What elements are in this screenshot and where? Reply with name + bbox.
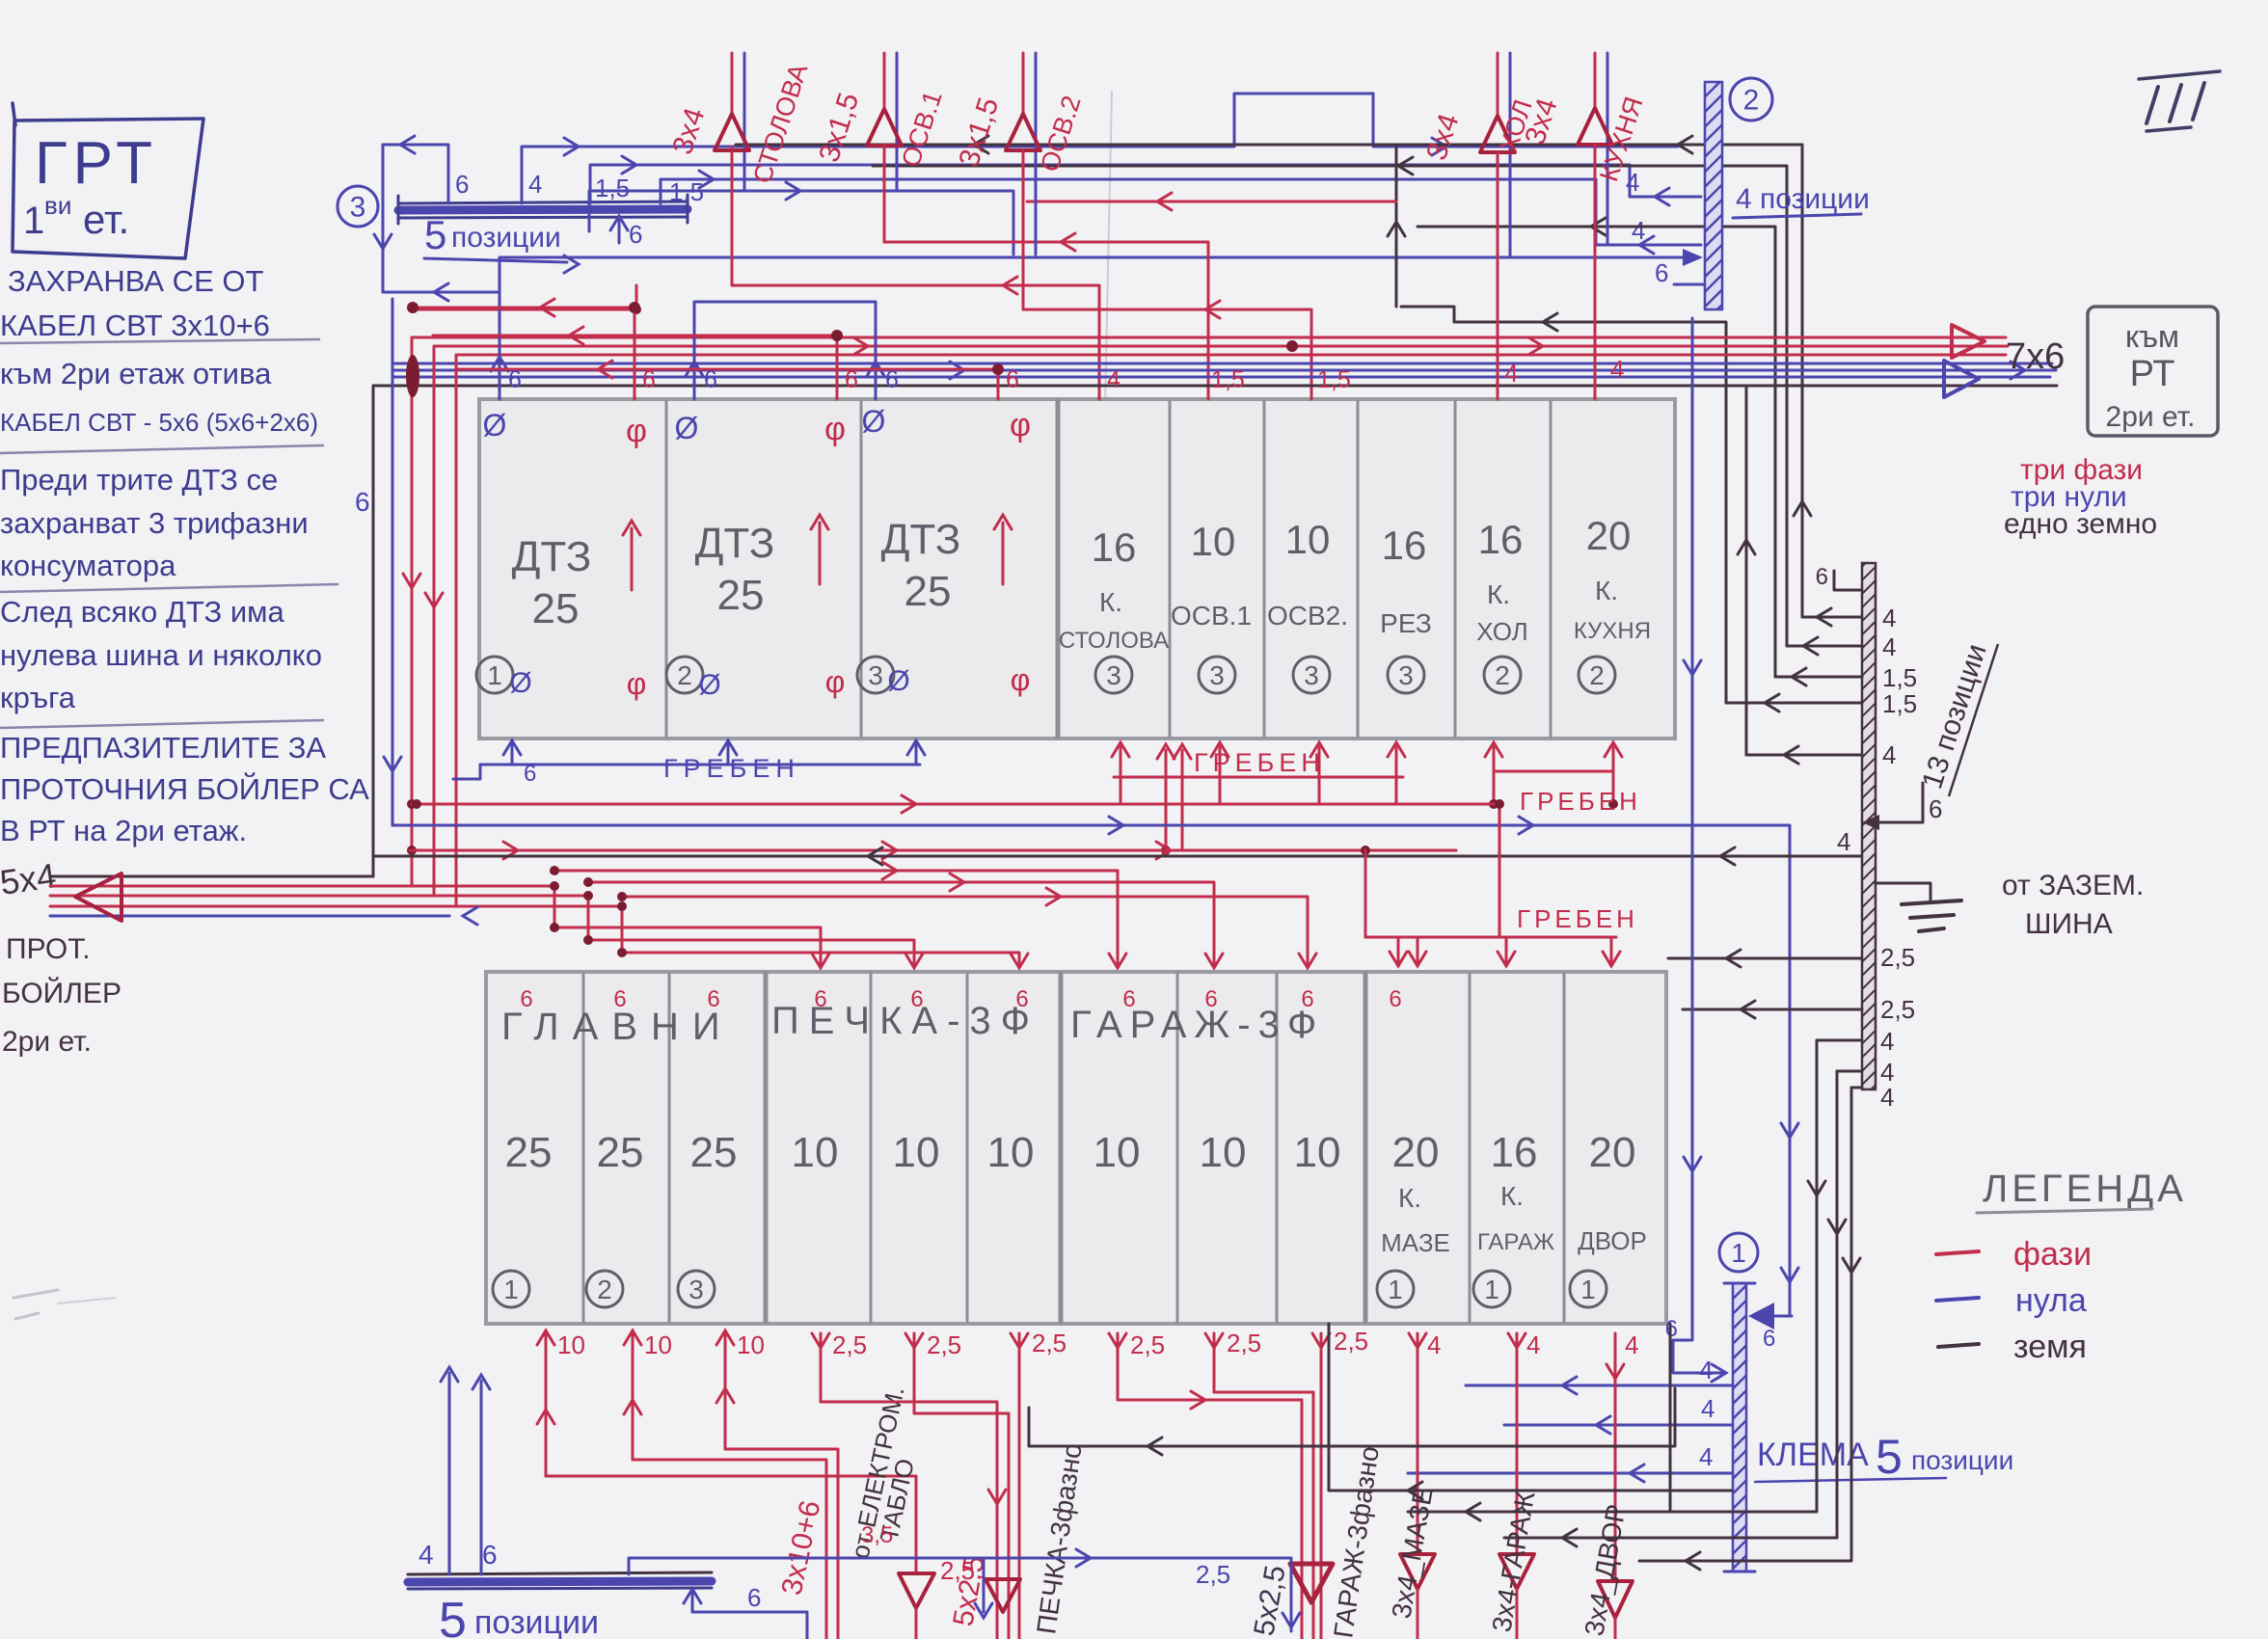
label GREBEN red right [1520, 787, 1641, 816]
svg-text:ДВОР: ДВОР [1578, 1226, 1647, 1255]
P1 neutral feed col1 [491, 292, 508, 399]
fuse F6 10A OSV.2 [1267, 517, 1348, 631]
svg-text:4: 4 [1837, 827, 1850, 856]
svg-text:ГАРАЖ-3Ф: ГАРАЖ-3Ф [1070, 1004, 1324, 1046]
svg-text:БОЙЛЕР: БОЙЛЕР [2, 977, 121, 1009]
svg-text:1: 1 [1580, 1275, 1596, 1304]
svg-text:3: 3 [688, 1275, 704, 1304]
cable 3x4 STOLOVA [666, 53, 813, 285]
boiler cable arrow head [75, 873, 121, 921]
svg-text:4: 4 [1882, 632, 1896, 661]
svg-text:2,5: 2,5 [832, 1330, 867, 1359]
svg-text:Преди трите ДТЗ се: Преди трите ДТЗ се [0, 463, 278, 497]
P1 phase feed col2 [433, 327, 843, 399]
svg-text:2,5: 2,5 [1227, 1329, 1261, 1357]
svg-text:6: 6 [885, 366, 899, 393]
legend neutral [1936, 1282, 2087, 1319]
earth wire mesh d2 [873, 157, 1787, 646]
tick labels 4 near bar 2 [1626, 168, 1645, 245]
P1 neutral bridge col2-col3 [686, 302, 884, 399]
svg-text:РЕЗ: РЕЗ [1380, 608, 1432, 638]
page mark 111 [2139, 71, 2220, 131]
svg-text:20: 20 [1589, 1129, 1636, 1176]
svg-text:4: 4 [1626, 168, 1639, 197]
neutral busbar 5 positions [398, 195, 688, 224]
svg-text:ГРЕБЕН: ГРЕБЕН [1194, 748, 1325, 777]
label 5x2,5 garaj [1248, 1563, 1291, 1638]
svg-text:6: 6 [747, 1583, 761, 1612]
svg-text:4: 4 [1632, 216, 1645, 245]
big ink blob left risers [406, 355, 419, 397]
fuse F4 16A K.STOLOVA [1059, 524, 1169, 654]
svg-text:2,5: 2,5 [927, 1330, 961, 1359]
svg-text:3: 3 [1398, 660, 1414, 690]
svg-text:4: 4 [528, 170, 542, 199]
svg-text:нула: нула [2015, 1282, 2087, 1319]
earth return v1 [1408, 1040, 1825, 1520]
svg-text:2,5: 2,5 [1032, 1329, 1066, 1357]
klema wire 4 a [1466, 1356, 1733, 1394]
P2 col7 drop 2,5 [1109, 1330, 1302, 1639]
svg-text:Ø: Ø [675, 411, 699, 445]
svg-text:5: 5 [424, 212, 446, 257]
svg-text:1,5: 1,5 [1317, 366, 1351, 393]
busbar bottom arrow 6 [610, 216, 642, 249]
svg-text:4: 4 [1882, 604, 1896, 632]
node circle 3 at x=1155 P1 [1095, 657, 1132, 693]
faint pencil scribble bottom-left [13, 1290, 116, 1319]
node circle 2 at x=1656 P1 [1579, 657, 1615, 693]
label GREBEN blue [663, 754, 800, 783]
7x6 neutral bundle (3 blue) [392, 362, 2056, 379]
boiler neutral wire [50, 907, 477, 925]
node circle 3 at x=908 P1 [857, 657, 894, 693]
svg-text:К.: К. [1099, 587, 1122, 617]
group label GLAVNI [501, 1006, 734, 1048]
svg-text:10: 10 [1200, 1129, 1247, 1176]
phase steps to P2 col6 [617, 901, 1028, 968]
neutral riser x499 [472, 1375, 490, 1574]
long phase wire y834 [412, 795, 1499, 813]
red arrow inside DT3-1 [623, 521, 640, 590]
phase marks bottom of P1 [627, 662, 1031, 701]
7x6 red cable arrow [1952, 325, 1984, 358]
svg-text:φ: φ [627, 666, 647, 701]
svg-text:ПРОТОЧНИЯ БОЙЛЕР СА: ПРОТОЧНИЯ БОЙЛЕР СА [0, 771, 369, 806]
earth wire mesh d4 [1401, 307, 1726, 703]
label 3x4 GARAZH [1486, 1489, 1540, 1634]
svg-text:6: 6 [642, 366, 656, 393]
fuse F9 20A K.KUHNYA [1574, 513, 1651, 644]
neutral riser left x407 [384, 299, 401, 825]
svg-text:КАБЕЛ СВТ - 5х6 (5х6+2х6): КАБЕЛ СВТ - 5х6 (5х6+2х6) [0, 408, 318, 437]
cable 3x4 HOL [1420, 53, 1538, 399]
cable 3x1,5 OSV.2 [953, 53, 1086, 309]
phase steps to P2 col4 [550, 881, 829, 968]
svg-text:20: 20 [1392, 1129, 1440, 1176]
svg-text:ЛЕГЕНДА: ЛЕГЕНДА [1983, 1168, 2187, 1210]
phase comb GREBEN over P2 right [1365, 850, 1620, 966]
earth wire mesh d3 [1417, 218, 1775, 677]
label 4 pozicii [1733, 183, 1870, 218]
fuse panel P1 (top row) [479, 399, 1675, 739]
node circle 1 at x=530 P2 [493, 1271, 529, 1307]
earth tick y729 [1726, 689, 1917, 718]
svg-text:Ø: Ø [483, 408, 507, 443]
svg-text:2: 2 [1589, 660, 1605, 690]
neutral comb GREBEN under DT3 [453, 740, 925, 787]
svg-text:3: 3 [868, 660, 883, 690]
note edno zemno [2004, 508, 2157, 540]
svg-text:2,5: 2,5 [1880, 943, 1915, 972]
P2 col12 drop 4 DVOR [1598, 1330, 1638, 1639]
svg-text:3: 3 [350, 192, 366, 224]
earth wire mesh d1 [736, 136, 1811, 617]
fuse rating 10 at x=1366 P2 [1294, 1129, 1341, 1176]
earth bar 13 positions [1862, 563, 1876, 1089]
P2 col11 drop 4 GARAZH [1499, 1330, 1540, 1639]
svg-text:ГАРАЖ: ГАРАЖ [1477, 1229, 1554, 1255]
svg-text:10: 10 [557, 1330, 585, 1359]
fuse panel P2 (bottom row) [486, 972, 1666, 1324]
label OT ELEKTROM TABLO [846, 1384, 920, 1561]
neutral bar 4 positions [1705, 82, 1722, 309]
earth wire y1500 [1029, 1388, 1675, 1455]
P2 col9 drop 2,5 [1312, 1327, 1368, 1639]
label GREBEN red over P2 [1517, 904, 1638, 933]
svg-text:2,5: 2,5 [1334, 1327, 1368, 1356]
label 5x2,5 pechka [947, 1553, 990, 1628]
red 6 wire-size labels on top of P2 [520, 986, 1401, 1012]
svg-text:6: 6 [1655, 258, 1668, 287]
svg-text:К.: К. [1487, 579, 1510, 609]
GRT title box [13, 103, 203, 258]
svg-text:25: 25 [690, 1129, 738, 1176]
svg-text:6: 6 [1389, 986, 1401, 1012]
phase steps to P2 col9 [617, 888, 1316, 968]
svg-text:25: 25 [597, 1129, 644, 1176]
svg-text:5: 5 [439, 1593, 467, 1639]
neutral marks top of P1 [483, 404, 886, 445]
svg-text:2ри ет.: 2ри ет. [2, 1026, 92, 1058]
node circle 1 at x=513 P1 [476, 657, 513, 693]
svg-text:16: 16 [1092, 524, 1137, 570]
svg-text:6: 6 [1122, 986, 1135, 1012]
svg-text:6: 6 [520, 986, 532, 1012]
svg-text:6: 6 [1204, 986, 1217, 1012]
svg-text:1,5: 1,5 [595, 174, 630, 202]
svg-text:1,5: 1,5 [1211, 366, 1245, 393]
svg-text:ХОЛ: ХОЛ [1476, 617, 1527, 646]
svg-text:φ: φ [824, 411, 846, 447]
fuse rating 10 at x=950 P2 [893, 1129, 940, 1176]
phase steps to P2 col8 [583, 873, 1223, 968]
svg-text:МАЗЕ: МАЗЕ [1381, 1228, 1450, 1257]
svg-text:φ: φ [1010, 407, 1031, 443]
node circle 3 at x=722 P2 [678, 1271, 715, 1307]
phase steps to P2 col5 [583, 891, 923, 968]
cable 3x10+6 arrow [899, 1573, 934, 1639]
fuse rating 25 at x=548 P2 [505, 1129, 553, 1176]
svg-text:ви: ви [44, 191, 71, 220]
svg-text:1: 1 [1388, 1275, 1403, 1304]
neutral wire mesh n3 [589, 182, 1013, 255]
svg-text:25: 25 [717, 572, 765, 619]
label 5pozicii bottom [439, 1593, 599, 1639]
busbar wire 4 to top-right [522, 94, 1678, 203]
svg-text:Ø: Ø [509, 667, 531, 699]
label KLEMA 5 pozicii [1755, 1430, 2013, 1484]
svg-text:ПРЕДПАЗИТЕЛИТЕ ЗА: ПРЕДПАЗИТЕЛИТЕ ЗА [0, 731, 326, 765]
svg-text:4: 4 [1526, 1330, 1540, 1359]
svg-text:25: 25 [904, 568, 952, 615]
stub labels row P1 [508, 366, 1351, 393]
node circle 3 at x=1360 P1 [1293, 657, 1330, 693]
svg-text:ДТЗ: ДТЗ [695, 520, 775, 567]
svg-text:3: 3 [1304, 660, 1319, 690]
svg-text:6: 6 [355, 487, 370, 517]
svg-text:4: 4 [1427, 1330, 1441, 1359]
klema solid feed arrow [1748, 1303, 1792, 1352]
svg-text:РТ: РТ [2130, 354, 2175, 394]
svg-text:4 позиции: 4 позиции [1736, 183, 1870, 215]
svg-text:3: 3 [1209, 660, 1225, 690]
P1 phase feed col3 [456, 361, 1004, 399]
P1 phase feed col1 [407, 299, 640, 399]
svg-text:2,5: 2,5 [1130, 1330, 1165, 1359]
svg-text:3,5: 3,5 [861, 1522, 893, 1548]
phase riser x450 [425, 346, 443, 896]
svg-text:ШИНА: ШИНА [2025, 908, 2113, 940]
cable PECHKA arrow [985, 1579, 1020, 1612]
svg-text:ЗАХРАНВА СЕ ОТ: ЗАХРАНВА СЕ ОТ [8, 264, 263, 298]
svg-text:ГРЕБЕН: ГРЕБЕН [1520, 787, 1641, 816]
phase comb GREBEN right [1485, 742, 1622, 809]
svg-text:ПРОТ.: ПРОТ. [6, 933, 91, 965]
legend phase [1936, 1236, 2092, 1273]
earth bar top tick 6 [1816, 564, 1862, 590]
P2 col8 drop 2,5 [1205, 1329, 1313, 1639]
svg-text:от ЗАЗЕМ.: от ЗАЗЕМ. [2002, 870, 2144, 901]
tall red arrows col4 [1157, 744, 1191, 855]
bottom neutral busbar 5 positions [408, 1572, 712, 1589]
svg-text:4: 4 [1699, 1356, 1713, 1384]
svg-text:5: 5 [1876, 1430, 1903, 1484]
P2 col6 drop 2,5 [1011, 1329, 1066, 1639]
note tri fazi [2020, 454, 2143, 486]
svg-text:2: 2 [597, 1275, 612, 1304]
svg-text:2: 2 [1495, 660, 1510, 690]
box KAM RT 2nd floor [2088, 307, 2218, 436]
phase riser x473 [455, 355, 458, 906]
svg-text:2: 2 [677, 660, 692, 690]
svg-text:3: 3 [1106, 660, 1121, 690]
fuse DT3-3 25A label [881, 516, 961, 615]
circled 1 klema id [1719, 1233, 1758, 1272]
svg-text:КУХНЯ: КУХНЯ [1574, 618, 1651, 644]
label 3x4 MAZE [1386, 1485, 1438, 1621]
svg-text:16: 16 [1491, 1129, 1538, 1176]
svg-text:1,5: 1,5 [1882, 663, 1917, 692]
earth tick y1111 [1837, 1058, 1894, 1087]
svg-text:6: 6 [910, 986, 923, 1012]
svg-text:6: 6 [1763, 1326, 1775, 1352]
svg-text:1: 1 [23, 200, 44, 242]
svg-text:25: 25 [505, 1129, 553, 1176]
earth tick y783 [1746, 740, 1896, 769]
svg-text:10: 10 [987, 1129, 1035, 1176]
earth tick y702 [1775, 663, 1917, 692]
long neutral wire y856 [392, 817, 1798, 1316]
P2 col10 drop 4 MAZE [1400, 1330, 1441, 1639]
cable 3x4 KUHNYA [1519, 53, 1648, 399]
ground symbol [1876, 883, 1961, 931]
note paragraph 1 [0, 264, 323, 453]
svg-text:6: 6 [707, 986, 719, 1012]
svg-text:φ: φ [1011, 662, 1031, 697]
svg-text:консуматора: консуматора [0, 549, 176, 582]
svg-text:6: 6 [1015, 986, 1028, 1012]
node circle 2 at x=710 P1 [666, 657, 703, 693]
svg-text:К.: К. [1398, 1183, 1421, 1213]
svg-text:кръга: кръга [0, 681, 76, 714]
circled 3 busbar id [337, 186, 378, 227]
svg-text:6: 6 [1816, 564, 1828, 590]
svg-text:4: 4 [1625, 1330, 1638, 1359]
svg-text:ДТЗ: ДТЗ [512, 533, 592, 580]
svg-text:6: 6 [613, 986, 626, 1012]
label 5x4 [0, 855, 59, 902]
group label PECHKA-3F [771, 1000, 1039, 1042]
svg-text:φ: φ [825, 664, 846, 699]
klema bar 5 positions [1724, 1283, 1755, 1572]
svg-text:ет.: ет. [83, 197, 129, 242]
svg-text:25: 25 [532, 585, 580, 632]
klema wire 4 b [1504, 1394, 1733, 1434]
svg-text:6: 6 [629, 220, 642, 249]
P2 col2 outgoing 10 [624, 1330, 826, 1639]
svg-text:4: 4 [1699, 1442, 1713, 1471]
phase wire OSV1 route [884, 147, 1208, 399]
DVOR label [1578, 1226, 1647, 1255]
svg-text:6: 6 [1006, 366, 1019, 393]
label 2,5 near 3x10 [940, 1556, 975, 1585]
earth return v3 [1639, 1088, 1860, 1570]
svg-text:6: 6 [845, 366, 858, 393]
svg-text:1,5: 1,5 [1882, 689, 1917, 718]
svg-text:1: 1 [487, 660, 502, 690]
svg-text:В РТ на 2ри етаж.: В РТ на 2ри етаж. [0, 814, 247, 847]
svg-text:2,5: 2,5 [1880, 995, 1915, 1024]
red arrow inside DT3-3 [994, 515, 1012, 584]
label 6 on left neutral riser [355, 487, 370, 517]
svg-text:10: 10 [893, 1129, 940, 1176]
node circle 2 at x=1558 P1 [1484, 657, 1521, 693]
svg-text:Ø: Ø [887, 665, 909, 697]
neutral tick 6 at bar2 [1655, 258, 1705, 287]
svg-text:4: 4 [1610, 355, 1624, 384]
fuse rating 10 at x=1268 P2 [1200, 1129, 1247, 1176]
svg-text:20: 20 [1586, 513, 1632, 558]
busbar riser left [374, 145, 391, 291]
node circle 1 at x=1547 P2 [1473, 1271, 1510, 1307]
earth tick y1128 [1851, 1083, 1894, 1112]
earth tick y1047 [1683, 995, 1915, 1024]
svg-text:16: 16 [1382, 523, 1427, 568]
svg-text:6: 6 [1929, 794, 1942, 823]
legend title [1977, 1168, 2187, 1213]
earth drop left to boiler [372, 386, 375, 876]
svg-text:2,5: 2,5 [1196, 1560, 1230, 1589]
svg-text:6: 6 [524, 761, 536, 787]
P2 col3 outgoing 10 [716, 1330, 838, 1639]
svg-text:10: 10 [1294, 1129, 1341, 1176]
busbar feeder stub 6 [383, 136, 469, 203]
phase steps to P2 col7 [550, 862, 1126, 968]
busbar label 5 pozicii [424, 212, 579, 273]
long earth wire y888 [373, 827, 1862, 865]
earth wire y1546 [1329, 1324, 1732, 1499]
label 3x10+6 [776, 1497, 827, 1598]
busbar wire 1,5 b [661, 171, 1701, 254]
earth riser to tick5 [1738, 386, 1755, 755]
neutral riser x1755 [1665, 318, 1726, 1382]
fuse rating 25 at x=740 P2 [690, 1129, 738, 1176]
svg-text:2: 2 [1743, 85, 1760, 117]
svg-text:4: 4 [1701, 1394, 1714, 1423]
svg-text:10: 10 [737, 1330, 765, 1359]
P2 col5 drop 2,5 [905, 1330, 1009, 1639]
neutral wire mesh n1 [499, 249, 1703, 291]
fuse rating 16 at x=1570 P2 [1491, 1129, 1538, 1176]
phase wire mesh r4 [412, 285, 641, 314]
note paragraph 3 [0, 731, 369, 847]
busbar wire 1,5 a [590, 156, 1701, 205]
neutral wire mesh n2 [383, 283, 499, 301]
fuse F5 10A OSV.1 [1171, 519, 1252, 631]
red arrow inside DT3-2 [811, 515, 828, 584]
svg-text:захранват 3 трифазни: захранват 3 трифазни [0, 506, 309, 540]
node circle 1 at x=1447 P2 [1377, 1271, 1414, 1307]
svg-text:6: 6 [508, 366, 522, 393]
blue branch to pechka area [629, 1549, 1300, 1631]
7x6 earth wire [373, 385, 2057, 388]
label PROT.BOILER [2, 933, 121, 1058]
svg-text:6: 6 [455, 170, 469, 199]
svg-text:позиции: позиции [451, 222, 561, 254]
label GARAZH-3fazno [1328, 1444, 1385, 1639]
svg-text:7х6: 7х6 [2006, 336, 2065, 377]
svg-text:едно земно: едно земно [2004, 508, 2157, 540]
svg-text:10: 10 [792, 1129, 839, 1176]
svg-text:4: 4 [1504, 359, 1518, 388]
cable GARAZH arrow [1290, 1564, 1333, 1602]
P2 col1 outgoing 10 [537, 1330, 916, 1573]
label 3,5 [861, 1522, 893, 1548]
svg-text:К.: К. [1595, 576, 1618, 605]
busbar hook 6 [684, 1583, 807, 1639]
svg-text:към: към [2125, 319, 2179, 354]
svg-text:1: 1 [1731, 1238, 1746, 1268]
P2 col4 drop 2,5 [812, 1330, 1006, 1639]
svg-text:1: 1 [503, 1275, 519, 1304]
boiler earth wire [50, 875, 373, 878]
fuse DT3-2 25A label [695, 520, 775, 619]
legend earth [1938, 1329, 2087, 1365]
svg-text:4: 4 [418, 1540, 434, 1570]
neutral marks bottom of P1 [509, 665, 909, 701]
note tri nuli [2011, 481, 2127, 513]
